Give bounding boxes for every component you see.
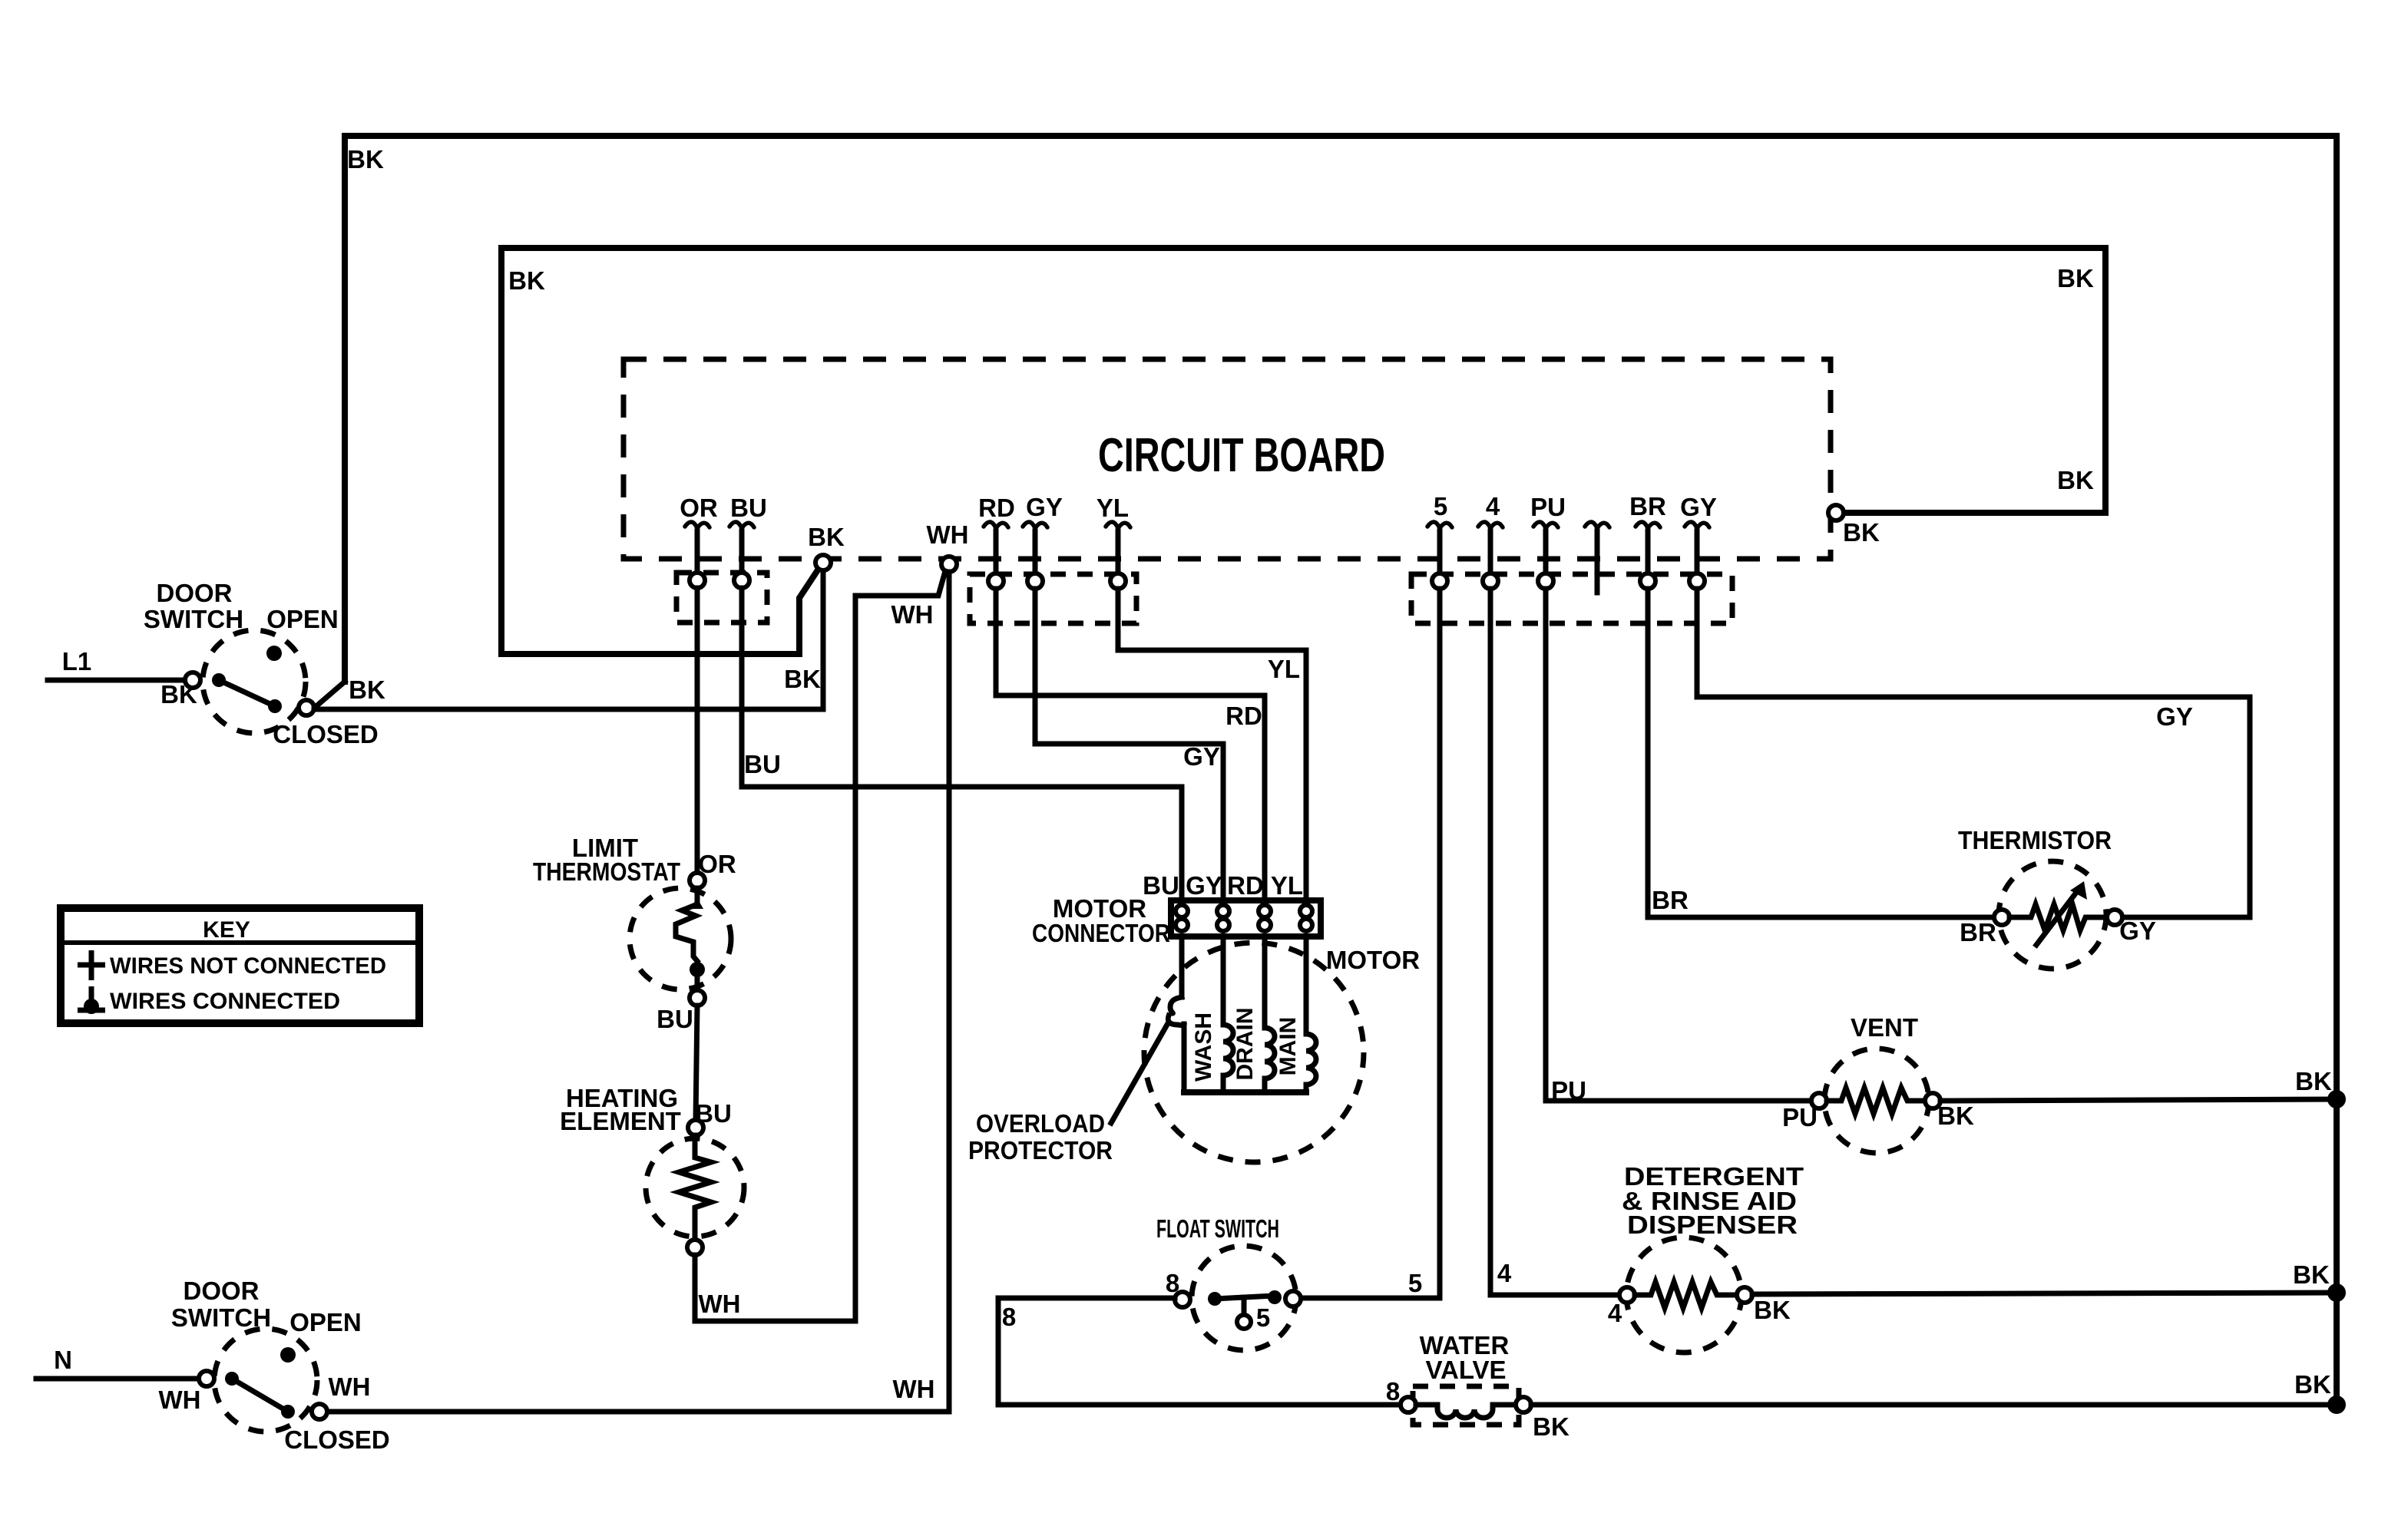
- svg-text:4: 4: [1608, 1299, 1622, 1327]
- svg-text:OVERLOAD: OVERLOAD: [976, 1109, 1105, 1138]
- svg-text:PU: PU: [1530, 493, 1566, 521]
- connector housing box 2 (RD GY YL): [970, 574, 1136, 623]
- svg-text:RD: RD: [978, 494, 1015, 522]
- wire thermostat to heating element: [696, 1006, 697, 1120]
- svg-text:BU: BU: [657, 1005, 693, 1033]
- svg-text:FLOAT SWITCH: FLOAT SWITCH: [1156, 1214, 1279, 1243]
- wire OR to limit thermostat: [695, 588, 700, 873]
- overload protector label and pointer: [968, 1023, 1168, 1164]
- vent R3: [1811, 1013, 1974, 1153]
- svg-text:WH: WH: [893, 1375, 935, 1403]
- pin YL on circuit board: [1096, 494, 1130, 589]
- svg-text:GY: GY: [2156, 702, 2193, 731]
- svg-text:BU: BU: [1143, 871, 1179, 900]
- junction dot vent rail: [2327, 1090, 2346, 1108]
- svg-text:5: 5: [1256, 1303, 1270, 1332]
- svg-text:N: N: [54, 1346, 72, 1374]
- svg-text:BK: BK: [1533, 1412, 1569, 1441]
- svg-text:CONNECTOR: CONNECTOR: [1032, 919, 1170, 947]
- svg-text:BU: BU: [730, 494, 767, 522]
- svg-text:SWITCH: SWITCH: [171, 1303, 271, 1332]
- svg-text:BK: BK: [2057, 466, 2094, 494]
- door switch S1 (upper): [144, 579, 379, 748]
- svg-text:RD: RD: [1225, 702, 1262, 730]
- motor M1: [1144, 943, 1420, 1162]
- svg-text:BK: BK: [349, 676, 385, 704]
- svg-text:DOOR: DOOR: [157, 579, 233, 607]
- svg-text:GY: GY: [1183, 742, 1220, 771]
- wire L1 lead: [48, 678, 185, 683]
- wire N lead: [36, 1376, 199, 1382]
- wire vent to right rail: [1940, 1099, 2337, 1101]
- wire BR from circuit board to thermistor: [1648, 589, 1994, 917]
- svg-text:WH: WH: [891, 600, 934, 629]
- svg-text:YL: YL: [1271, 871, 1303, 900]
- svg-text:8: 8: [1386, 1377, 1400, 1406]
- svg-text:WH: WH: [329, 1372, 371, 1401]
- svg-text:BK: BK: [2057, 264, 2094, 292]
- pin BU on circuit board: [729, 494, 767, 588]
- pin BK on circuit board: [808, 523, 845, 570]
- pin BR on circuit board: [1629, 492, 1666, 589]
- svg-text:4: 4: [1486, 492, 1500, 520]
- svg-text:MOTOR: MOTOR: [1326, 946, 1420, 974]
- svg-text:CLOSED: CLOSED: [284, 1425, 390, 1454]
- wire WH pin to lower door switch: [314, 572, 949, 1412]
- junction dot water valve rail: [2327, 1396, 2346, 1414]
- motor winding WASH: [1191, 936, 1233, 1092]
- svg-text:OPEN: OPEN: [289, 1308, 362, 1336]
- connector housing box 1 (OR BU): [676, 573, 767, 623]
- svg-text:DISPENSER: DISPENSER: [1627, 1211, 1798, 1239]
- pin PU on circuit board: [1530, 493, 1566, 589]
- svg-text:MAIN: MAIN: [1275, 1017, 1301, 1076]
- wire YL from circuit board to motor connector: [1118, 589, 1306, 900]
- svg-text:BK: BK: [1754, 1296, 1791, 1324]
- float switch S3: [1156, 1214, 1301, 1350]
- svg-text:BK: BK: [2294, 1370, 2331, 1399]
- svg-text:VALVE: VALVE: [1425, 1356, 1506, 1384]
- svg-text:GY: GY: [2119, 917, 2156, 945]
- svg-text:GY: GY: [1026, 493, 1063, 521]
- pin unused on circuit board: [1585, 522, 1609, 593]
- wire GY from circuit board to thermistor: [1697, 589, 2250, 917]
- door switch S2 (lower): [159, 1277, 390, 1454]
- wire door switch to BK riser (diagonal): [317, 682, 345, 705]
- svg-text:BK: BK: [508, 266, 545, 295]
- svg-text:BK: BK: [2293, 1260, 2330, 1289]
- wire BU from circuit board to motor connector: [742, 588, 1182, 900]
- svg-text:BK: BK: [160, 680, 197, 709]
- wire RD from circuit board to motor connector: [996, 589, 1265, 900]
- wire heating element to WH pin: [695, 571, 945, 1321]
- wire door switch to circuit board BK pin: [314, 572, 823, 709]
- motor winding MAIN: [1275, 936, 1316, 1092]
- pin GY on circuit board: [1023, 493, 1063, 589]
- svg-text:SWITCH: SWITCH: [144, 605, 243, 633]
- pin GY2 on circuit board: [1680, 493, 1717, 589]
- svg-text:OPEN: OPEN: [266, 605, 339, 633]
- svg-text:DOOR: DOOR: [184, 1277, 260, 1305]
- pin WH on circuit board: [927, 520, 969, 572]
- detergent and rinse aid dispenser R2: [1608, 1162, 1804, 1353]
- wire water valve to right rail: [1531, 1402, 2337, 1408]
- thermistor RT1: [1958, 826, 2156, 969]
- svg-text:THERMOSTAT: THERMOSTAT: [533, 857, 680, 886]
- connector housing box 3 (5 4 PU BR GY): [1411, 574, 1732, 623]
- svg-text:BR: BR: [1629, 492, 1666, 520]
- svg-text:WASH: WASH: [1191, 1012, 1216, 1082]
- junction dot dispenser rail: [2327, 1283, 2346, 1302]
- svg-text:BK: BK: [808, 523, 845, 551]
- wire GY from circuit board to motor connector: [1035, 589, 1223, 900]
- svg-text:KEY: KEY: [203, 917, 250, 943]
- svg-text:L1: L1: [62, 647, 92, 676]
- svg-text:WH: WH: [699, 1290, 741, 1318]
- pin 4 on circuit board: [1478, 492, 1503, 589]
- pin RD on circuit board: [978, 494, 1015, 589]
- svg-text:PROTECTOR: PROTECTOR: [968, 1136, 1113, 1164]
- terminal BK on circuit board right edge: [1828, 505, 1844, 520]
- svg-text:BK: BK: [347, 145, 384, 173]
- svg-text:8: 8: [1002, 1303, 1016, 1331]
- heating element R1: [560, 1084, 744, 1318]
- key box: [61, 908, 419, 1023]
- svg-text:YL: YL: [1268, 655, 1300, 683]
- wire PU from circuit board to vent: [1546, 589, 1811, 1101]
- water valve L1 coil: [1401, 1331, 1569, 1441]
- svg-text:WIRES NOT CONNECTED: WIRES NOT CONNECTED: [110, 953, 386, 979]
- svg-text:WH: WH: [927, 520, 969, 549]
- svg-text:5: 5: [1408, 1269, 1422, 1297]
- wire 5 from circuit board to float switch: [1301, 589, 1440, 1298]
- svg-text:YL: YL: [1096, 494, 1129, 522]
- svg-text:VENT: VENT: [1851, 1013, 1918, 1042]
- svg-text:BK: BK: [1843, 518, 1880, 547]
- pin OR on circuit board: [680, 494, 718, 588]
- svg-text:THERMISTOR: THERMISTOR: [1958, 826, 2112, 854]
- motor connector J1: [1032, 871, 1321, 947]
- svg-text:WH: WH: [159, 1386, 201, 1414]
- svg-text:BU: BU: [744, 750, 781, 778]
- wire inner BK loop: [501, 248, 2105, 654]
- svg-text:DRAIN: DRAIN: [1232, 1008, 1258, 1081]
- svg-text:BK: BK: [2295, 1067, 2332, 1095]
- motor winding DRAIN: [1232, 936, 1275, 1092]
- svg-text:GY: GY: [1186, 871, 1222, 900]
- svg-text:ELEMENT: ELEMENT: [560, 1107, 681, 1135]
- svg-text:CLOSED: CLOSED: [273, 720, 379, 748]
- svg-text:PU: PU: [1551, 1076, 1586, 1105]
- wire outer BK rail: left riser, top rail, right rail: [345, 136, 2337, 1405]
- svg-text:OR: OR: [680, 494, 718, 522]
- svg-text:5: 5: [1434, 492, 1447, 520]
- svg-text:BR: BR: [1652, 886, 1689, 914]
- circuit board dashed outline: [623, 359, 1831, 559]
- svg-text:4: 4: [1497, 1259, 1512, 1287]
- svg-text:CIRCUIT BOARD: CIRCUIT BOARD: [1098, 429, 1385, 482]
- svg-text:BK: BK: [1937, 1102, 1974, 1130]
- wire float switch 8 side down to water valve line: [998, 1298, 1401, 1405]
- overload protector inside motor: [1168, 936, 1184, 1092]
- wire motor common bottom rail: [1184, 1089, 1306, 1095]
- svg-text:RD: RD: [1227, 871, 1264, 900]
- svg-text:WIRES CONNECTED: WIRES CONNECTED: [110, 989, 340, 1014]
- wire 4 from circuit board to dispenser: [1490, 589, 1619, 1295]
- svg-text:BK: BK: [784, 665, 821, 693]
- pin 5 on circuit board: [1427, 492, 1452, 589]
- svg-text:BR: BR: [1960, 918, 1996, 946]
- limit thermostat TH1: [533, 834, 736, 1033]
- svg-text:GY: GY: [1680, 493, 1717, 521]
- wire dispenser to right rail: [1752, 1293, 2337, 1294]
